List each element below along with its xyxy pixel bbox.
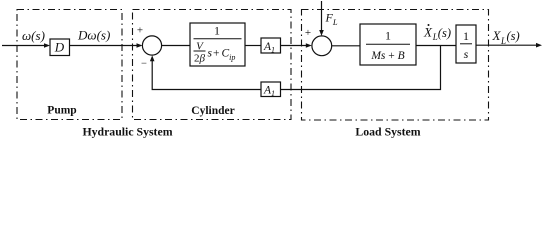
svg-text:X: X [492,28,502,43]
svg-text:Pump: Pump [47,105,76,117]
wire: summing junction 2 to block G2 [332,45,360,47]
svg-text:D: D [54,40,65,55]
summing junction 2 [312,36,332,56]
svg-text:+: + [137,25,143,37]
Cylinder subsystem dash-dot box [133,10,292,120]
svg-text:(s): (s) [507,29,520,43]
svg-text:X: X [423,25,433,40]
svg-text:2β: 2β [194,53,206,65]
wire: D to summing junction 1 [70,45,138,47]
wire: A1 top to summing junction 2 [281,45,307,47]
wire: summing junction 1 to block G1 [162,45,190,47]
wire: G1 to A1 top [245,45,261,47]
Pump subsystem dash-dot box [17,10,122,120]
wire: feedback branch down from node [281,46,441,90]
svg-text:−: − [141,59,147,70]
wire: output X_L(s) [476,44,537,46]
block A1 bottom [261,82,281,97]
svg-text:s: s [208,48,213,60]
summing junction 1 [142,36,161,55]
wire: G2 to integrator [416,45,456,47]
block G2: 1/(Ms+B) [360,24,416,65]
wire: feedback A1 bottom to summing junction 1 [152,61,261,90]
block integrator 1/s [456,25,476,63]
svg-text:Hydraulic System: Hydraulic System [82,125,172,139]
svg-text:+: + [213,48,220,60]
svg-text:L: L [500,36,506,46]
block A1 top [261,38,281,53]
svg-text:(s): (s) [438,26,451,40]
svg-text:ω(s): ω(s) [22,28,45,43]
svg-text:Ms + B: Ms + B [370,50,404,62]
disturbance input F_L [321,1,323,31]
svg-text:Dω(s): Dω(s) [77,28,110,43]
wire: input to D block [2,45,44,47]
block D [50,39,70,56]
Load System dash-dot box [302,10,489,121]
svg-text:1: 1 [214,24,220,38]
svg-text:1: 1 [463,29,469,43]
svg-text:1: 1 [385,29,391,43]
block G1: 1/((V/2beta)s+Cip) [190,23,245,66]
svg-text:s: s [464,47,469,61]
svg-text:Load System: Load System [355,125,420,139]
svg-text:+: + [305,27,311,39]
svg-text:Cylinder: Cylinder [191,105,234,117]
